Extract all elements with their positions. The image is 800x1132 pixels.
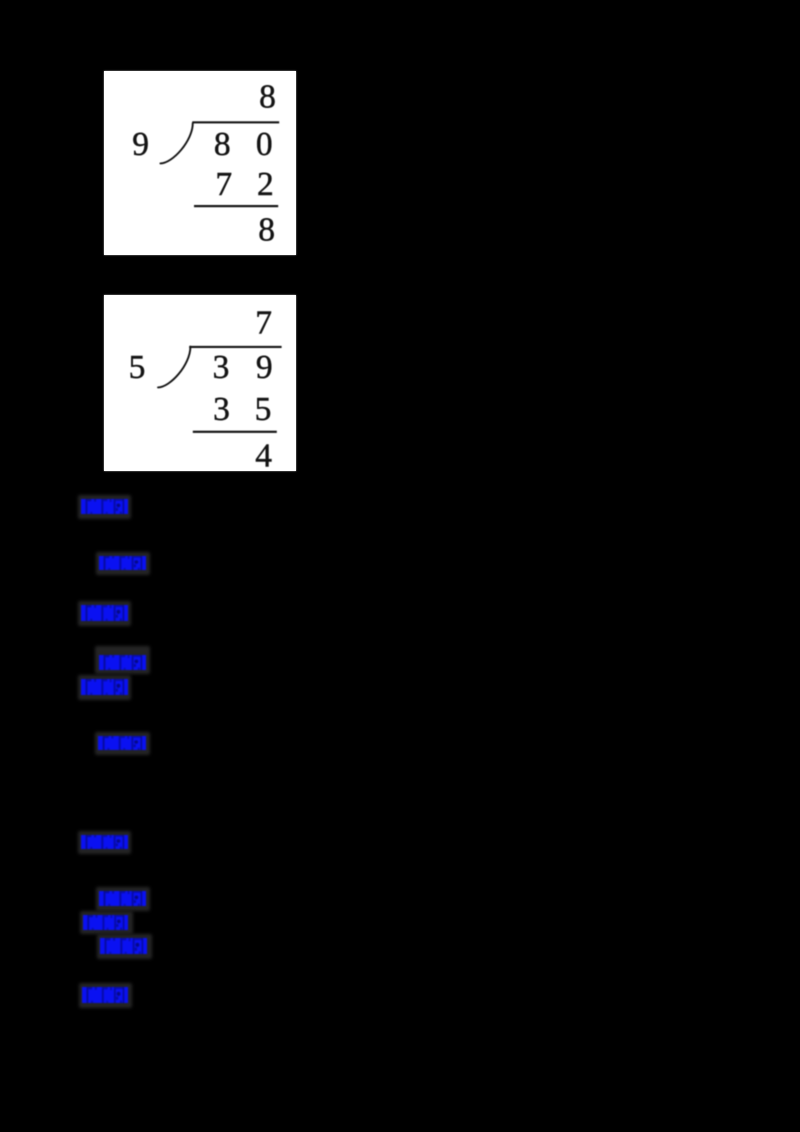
svg-text:9: 9 [256, 349, 273, 386]
svg-text:4: 4 [255, 438, 272, 471]
svg-text:7: 7 [215, 166, 232, 203]
svg-text:0: 0 [256, 126, 273, 163]
svg-text:3: 3 [213, 391, 230, 428]
svg-text:5: 5 [255, 391, 272, 428]
svg-text:7: 7 [255, 305, 272, 342]
svg-text:8: 8 [214, 126, 231, 163]
svg-text:9: 9 [132, 126, 149, 163]
svg-text:8: 8 [259, 79, 276, 116]
svg-text:2: 2 [257, 166, 274, 203]
svg-text:5: 5 [129, 349, 146, 386]
svg-text:3: 3 [213, 349, 230, 386]
svg-text:8: 8 [258, 211, 275, 248]
